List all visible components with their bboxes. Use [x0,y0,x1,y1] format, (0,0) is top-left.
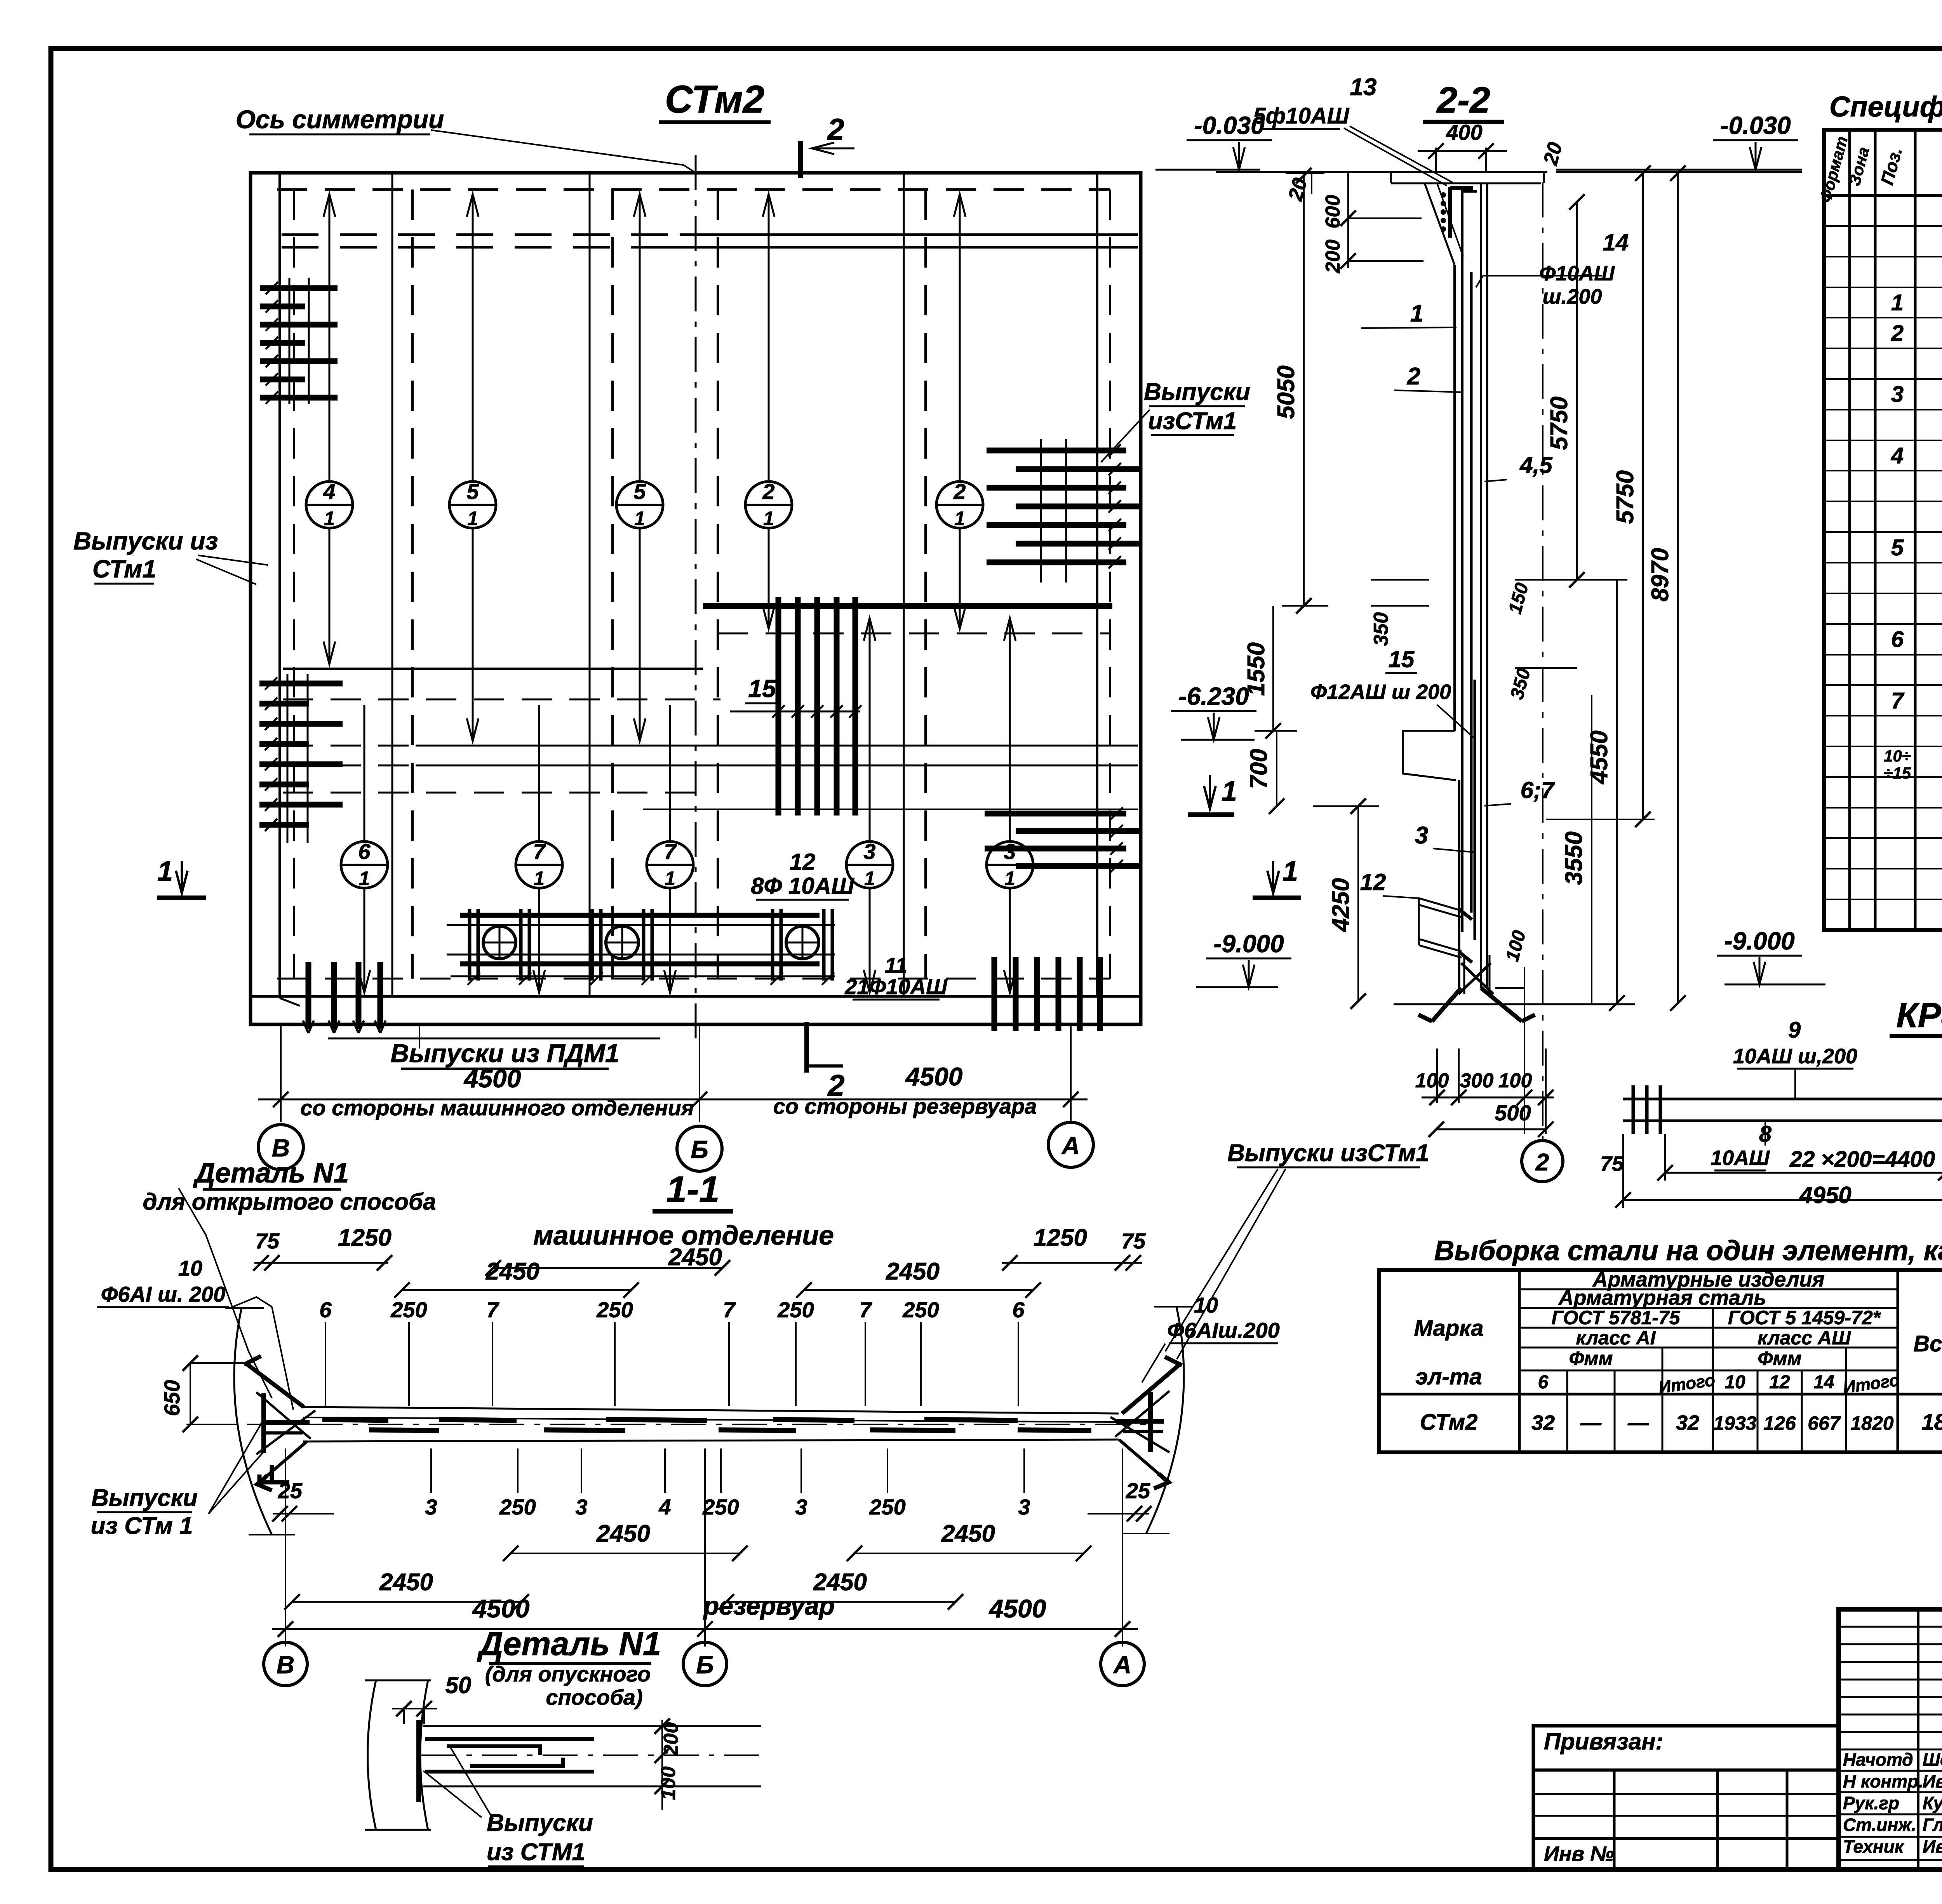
svg-text:Начотд: Начотд [1843,1749,1913,1770]
svg-text:2450: 2450 [886,1258,940,1285]
svg-text:6: 6 [1538,1372,1549,1393]
svg-text:4: 4 [658,1495,671,1519]
svg-text:200: 200 [660,1722,682,1756]
svg-text:Выпуски из: Выпуски из [73,527,218,555]
svg-text:4,5: 4,5 [1519,452,1553,478]
svg-text:10АШ: 10АШ [1711,1146,1770,1170]
svg-text:4550: 4550 [1586,730,1613,785]
svg-text:250: 250 [902,1297,939,1322]
svg-text:10: 10 [1724,1372,1745,1393]
svg-text:5: 5 [466,479,479,504]
svg-text:(для опускного: (для опускного [485,1662,651,1686]
svg-text:25: 25 [278,1478,303,1503]
svg-text:11: 11 [885,953,907,977]
svg-text:Фмм: Фмм [1758,1348,1801,1369]
svg-text:75: 75 [1121,1229,1146,1253]
svg-text:ГОСТ 5 1459-72*: ГОСТ 5 1459-72* [1728,1307,1881,1328]
svg-text:Выпуски: Выпуски [487,1810,593,1836]
svg-text:8970: 8970 [1647,548,1674,602]
svg-text:5: 5 [1891,535,1904,560]
svg-text:14: 14 [1813,1372,1834,1393]
svg-text:Спецификация элементов монолит: Спецификация элементов монолитной констр… [1829,90,1942,123]
svg-text:Фмм: Фмм [1569,1348,1613,1369]
svg-text:4: 4 [323,479,335,504]
svg-text:1: 1 [157,856,173,887]
svg-text:Техник: Техник [1843,1836,1905,1857]
svg-text:со стороны машинного отделения: со стороны машинного отделения [300,1095,694,1120]
svg-text:1250: 1250 [338,1224,392,1251]
svg-text:из СТм 1: из СТм 1 [90,1513,193,1539]
svg-text:Глуменко: Глуменко [1923,1815,1942,1835]
svg-text:250: 250 [596,1297,633,1322]
svg-text:Ф10АШ: Ф10АШ [1539,262,1615,285]
svg-text:Ф12АШ ш 200: Ф12АШ ш 200 [1310,680,1451,704]
svg-text:5050: 5050 [1273,365,1300,419]
svg-text:1-1: 1-1 [666,1169,719,1210]
svg-text:20: 20 [1284,176,1312,203]
svg-text:400: 400 [1446,120,1482,144]
svg-text:4500: 4500 [988,1594,1046,1623]
svg-text:2450: 2450 [941,1520,995,1547]
svg-text:А: А [1061,1132,1080,1160]
svg-text:ГОСТ 5781-75: ГОСТ 5781-75 [1551,1307,1680,1328]
svg-text:250: 250 [777,1297,814,1322]
svg-text:1: 1 [1004,868,1015,889]
svg-text:75: 75 [255,1229,280,1253]
svg-text:4500: 4500 [463,1064,521,1093]
svg-text:В: В [277,1651,294,1679]
svg-text:1: 1 [467,508,478,529]
svg-text:12: 12 [1360,869,1386,895]
svg-text:300: 300 [1460,1069,1494,1092]
svg-text:15: 15 [748,675,776,702]
svg-text:1820: 1820 [1850,1412,1893,1434]
svg-text:4: 4 [1891,443,1904,468]
svg-text:600: 600 [1322,195,1344,229]
svg-text:700: 700 [1246,749,1272,789]
svg-text:Выборка стали на один элемент,: Выборка стали на один элемент, кг [1434,1235,1942,1266]
svg-text:4950: 4950 [1799,1182,1851,1208]
svg-text:350: 350 [1370,612,1392,646]
svg-text:-9.000: -9.000 [1724,927,1794,955]
svg-text:7: 7 [533,839,546,864]
svg-text:6: 6 [1012,1297,1025,1322]
svg-text:10÷: 10÷ [1884,747,1911,765]
svg-text:10АШ ш,200: 10АШ ш,200 [1733,1045,1857,1068]
svg-text:7: 7 [486,1297,499,1322]
svg-text:СТм2: СТм2 [665,78,765,121]
svg-text:1: 1 [1222,776,1237,807]
svg-text:Привязан:: Привязан: [1544,1728,1663,1754]
svg-text:100: 100 [1415,1069,1449,1092]
svg-text:12: 12 [790,849,816,875]
svg-text:ш.200: ш.200 [1542,285,1602,308]
svg-text:2-2: 2-2 [1436,80,1490,121]
svg-text:3: 3 [1415,822,1428,849]
svg-text:Деталь N1: Деталь N1 [193,1158,349,1189]
svg-text:15: 15 [1389,646,1415,672]
svg-text:3: 3 [863,839,875,864]
svg-text:Рук.гр: Рук.гр [1843,1793,1899,1813]
svg-text:667: 667 [1808,1412,1841,1434]
svg-text:1: 1 [665,868,675,889]
svg-text:1: 1 [954,508,965,529]
svg-text:2: 2 [827,112,844,146]
svg-text:250: 250 [702,1495,739,1519]
svg-text:Иванов: Иванов [1923,1771,1942,1791]
svg-text:1: 1 [634,508,645,529]
svg-text:4500: 4500 [905,1062,963,1091]
svg-text:Шейко: Шейко [1923,1749,1942,1770]
svg-text:2450: 2450 [486,1258,539,1285]
svg-text:1: 1 [534,868,545,889]
svg-text:5750: 5750 [1546,396,1573,450]
svg-text:7: 7 [859,1297,872,1322]
svg-text:Б: Б [691,1135,708,1163]
svg-text:Всего: Всего [1913,1331,1942,1356]
svg-text:1250: 1250 [1034,1224,1087,1251]
svg-text:Б: Б [696,1651,713,1679]
svg-text:1: 1 [1891,290,1904,315]
svg-text:6: 6 [1891,627,1904,652]
svg-text:2: 2 [953,479,966,504]
svg-text:2: 2 [1407,363,1420,390]
svg-text:÷15: ÷15 [1884,764,1911,782]
svg-text:250: 250 [869,1495,905,1519]
svg-text:А: А [1113,1651,1131,1679]
svg-text:5: 5 [633,479,646,504]
svg-text:100: 100 [1502,928,1530,963]
svg-text:350: 350 [1507,666,1535,701]
svg-text:21Ф10АШ: 21Ф10АШ [844,974,948,999]
svg-text:20: 20 [1539,140,1567,168]
svg-text:250: 250 [499,1495,536,1519]
svg-text:100: 100 [657,1767,680,1800]
svg-text:Выпуски: Выпуски [1144,379,1250,405]
svg-text:1: 1 [763,508,774,529]
svg-text:—: — [1627,1411,1649,1435]
svg-text:2: 2 [1535,1149,1549,1176]
svg-text:1852: 1852 [1921,1410,1942,1435]
svg-text:3: 3 [1018,1495,1030,1519]
svg-text:3: 3 [575,1495,587,1519]
svg-text:Деталь N1: Деталь N1 [477,1626,661,1662]
svg-text:класс АI: класс АI [1576,1327,1656,1349]
svg-text:3: 3 [1891,382,1904,407]
svg-text:резервуар: резервуар [703,1591,835,1620]
svg-text:2: 2 [762,479,774,504]
svg-text:Марка: Марка [1414,1316,1483,1341]
svg-text:изСТм1: изСТм1 [1148,408,1237,435]
svg-text:Выпуски изСТм1: Выпуски изСТм1 [1227,1140,1429,1167]
svg-text:способа): способа) [546,1685,642,1709]
svg-text:Арматурная сталь: Арматурная сталь [1558,1286,1766,1309]
svg-text:СТм2: СТм2 [1420,1410,1478,1435]
svg-text:7: 7 [1891,688,1905,713]
svg-text:1933: 1933 [1713,1412,1756,1434]
svg-text:1: 1 [359,868,370,889]
svg-text:6: 6 [319,1297,332,1322]
svg-text:Инв №: Инв № [1544,1842,1614,1866]
svg-text:Ф6АI ш. 200: Ф6АI ш. 200 [101,1282,226,1306]
svg-text:9: 9 [1788,1017,1801,1043]
svg-text:13: 13 [1350,74,1377,101]
svg-text:Н контр.: Н контр. [1843,1771,1923,1791]
svg-text:50: 50 [445,1672,472,1698]
svg-text:Выпуски: Выпуски [91,1485,198,1511]
svg-text:2450: 2450 [596,1520,650,1547]
svg-text:-9.000: -9.000 [1213,930,1284,958]
svg-text:5ф10АШ: 5ф10АШ [1253,103,1350,129]
svg-text:75: 75 [1600,1152,1624,1175]
svg-text:Ст.инж.: Ст.инж. [1843,1815,1916,1835]
svg-text:5750: 5750 [1612,470,1639,524]
svg-text:6: 6 [358,839,371,864]
svg-text:6;7: 6;7 [1521,777,1555,803]
svg-text:8Ф 10АШ: 8Ф 10АШ [751,873,854,899]
svg-text:2450: 2450 [668,1244,722,1271]
svg-text:3550: 3550 [1561,831,1587,885]
svg-text:7: 7 [664,839,677,864]
svg-text:класс АШ: класс АШ [1758,1327,1851,1349]
svg-text:1: 1 [1410,300,1423,327]
svg-text:25: 25 [1126,1478,1150,1503]
svg-text:2: 2 [1891,321,1904,346]
svg-text:3: 3 [795,1495,807,1519]
svg-text:500: 500 [1495,1101,1531,1125]
svg-text:14: 14 [1603,230,1629,256]
svg-text:32: 32 [1676,1411,1699,1435]
svg-text:250: 250 [390,1297,427,1322]
svg-text:Поз.: Поз. [1877,145,1906,187]
svg-text:22 ×200=4400: 22 ×200=4400 [1789,1147,1935,1172]
svg-text:Кунцевич: Кунцевич [1923,1793,1942,1813]
svg-text:эл-та: эл-та [1415,1364,1482,1389]
svg-text:со стороны резервуара: со стороны резервуара [773,1094,1037,1118]
svg-text:10: 10 [178,1256,202,1280]
svg-text:-0.030: -0.030 [1720,111,1791,139]
svg-text:7: 7 [723,1297,736,1322]
svg-text:32: 32 [1531,1411,1555,1435]
svg-text:150: 150 [1505,581,1533,616]
svg-text:1: 1 [1282,856,1298,887]
svg-text:Иволженко: Иволженко [1923,1836,1942,1857]
svg-text:126: 126 [1763,1412,1796,1434]
svg-text:1: 1 [324,508,335,529]
svg-text:-6.230: -6.230 [1178,682,1249,710]
svg-text:из СТМ1: из СТМ1 [487,1839,585,1866]
svg-text:4500: 4500 [472,1594,530,1623]
svg-text:12: 12 [1769,1372,1790,1393]
svg-text:10: 10 [1194,1293,1218,1317]
svg-text:2450: 2450 [379,1569,433,1596]
svg-text:КР8: КР8 [1896,996,1942,1035]
svg-text:Ось симметрии: Ось симметрии [236,105,444,134]
svg-text:—: — [1580,1411,1602,1435]
svg-text:Выпуски из ПДМ1: Выпуски из ПДМ1 [390,1039,619,1068]
svg-text:СТм1: СТм1 [92,555,156,583]
svg-text:4250: 4250 [1328,878,1354,932]
svg-text:1: 1 [864,868,875,889]
svg-text:3: 3 [425,1495,437,1519]
svg-text:100: 100 [1498,1069,1532,1092]
svg-text:650: 650 [160,1380,184,1416]
